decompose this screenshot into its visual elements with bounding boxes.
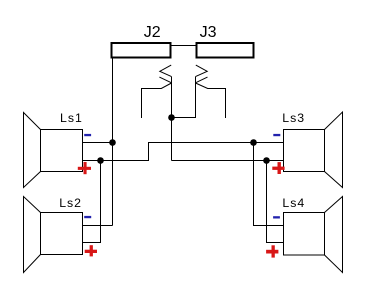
connector J3 bbox=[197, 43, 254, 58]
speaker Ls1 box bbox=[41, 130, 83, 172]
wire Ls1 minus terminal bbox=[83, 142, 113, 144]
Ls4 minus mark bbox=[273, 216, 280, 218]
svg-text:Ls3: Ls3 bbox=[282, 111, 305, 125]
Ls2 plus mark bbox=[90, 245, 93, 256]
svg-text:Ls2: Ls2 bbox=[59, 196, 82, 210]
Ls4 plus mark bbox=[272, 245, 275, 257]
Ls1 plus mark bbox=[84, 162, 87, 174]
junction node Ls3 plus bbox=[263, 157, 270, 164]
speaker Ls2 box bbox=[41, 213, 83, 255]
jack J3 tip contact bbox=[196, 65, 208, 77]
speaker Ls1 cone bbox=[24, 113, 41, 188]
wire J2-J3 link bbox=[172, 45, 197, 47]
wire Ls3 minus down to Ls4 minus bbox=[254, 143, 284, 226]
jack J2 switch arm bbox=[142, 83, 172, 118]
wire J2 tip vertical to node bbox=[171, 77, 173, 161]
wire J2 left pin down bbox=[112, 59, 114, 226]
wire Ls3 plus down to Ls4 plus bbox=[267, 161, 284, 243]
wire Ls1 plus down to Ls2 plus bbox=[83, 161, 101, 243]
junction node jack tips bbox=[168, 114, 175, 121]
jack J2 NC contact bbox=[159, 77, 171, 83]
junction node Ls1 minus bbox=[109, 139, 116, 146]
svg-text:Ls4: Ls4 bbox=[282, 196, 305, 210]
speaker Ls2 cone bbox=[24, 197, 41, 273]
Ls2 minus mark bbox=[84, 216, 91, 218]
jack J3 switch arm bbox=[196, 83, 226, 118]
wire Ls1 plus to Ls3 minus step bbox=[83, 143, 284, 161]
Ls3 plus mark bbox=[278, 162, 281, 174]
speaker Ls3 cone bbox=[325, 112, 343, 188]
Ls1 minus mark bbox=[84, 134, 91, 136]
speaker Ls4 box bbox=[284, 213, 325, 256]
Ls3 minus mark bbox=[273, 134, 280, 136]
wire Ls2 minus terminal bbox=[83, 225, 113, 227]
junction node Ls3 minus bbox=[250, 139, 257, 146]
svg-text:J2: J2 bbox=[144, 24, 161, 41]
connector J2 bbox=[112, 43, 171, 58]
wire node tip to Ls3 plus bbox=[172, 160, 284, 162]
svg-text:J3: J3 bbox=[200, 24, 217, 41]
svg-text:Ls1: Ls1 bbox=[60, 111, 83, 125]
jack J2 tip contact bbox=[160, 65, 172, 77]
speaker Ls3 box bbox=[284, 130, 325, 172]
speaker Ls4 cone bbox=[325, 197, 343, 273]
jack J3 NC contact bbox=[196, 77, 208, 83]
wire J3 tip vertical to node bbox=[172, 77, 196, 118]
junction node Ls1 plus bbox=[97, 157, 104, 164]
